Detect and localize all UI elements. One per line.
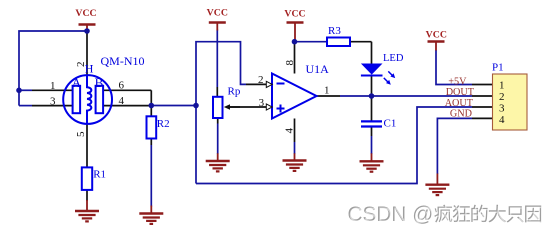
svg-text:VCC: VCC — [426, 30, 447, 41]
svg-text:4: 4 — [284, 128, 296, 134]
svg-text:Rp: Rp — [228, 86, 241, 98]
svg-text:1: 1 — [324, 85, 330, 97]
svg-text:VCC: VCC — [75, 8, 96, 19]
svg-text:+5V: +5V — [448, 77, 467, 88]
svg-text:1: 1 — [50, 80, 56, 92]
svg-text:2: 2 — [499, 91, 505, 103]
svg-text:A: A — [72, 75, 82, 90]
svg-text:B: B — [95, 75, 104, 90]
svg-text:4: 4 — [119, 95, 125, 107]
svg-text:CSDN @: CSDN @ — [349, 204, 435, 227]
svg-text:4: 4 — [499, 114, 505, 126]
svg-text:C1: C1 — [384, 117, 397, 129]
svg-text:8: 8 — [284, 60, 296, 66]
svg-text:6: 6 — [119, 80, 125, 92]
svg-text:5: 5 — [75, 131, 87, 137]
svg-text:VCC: VCC — [284, 9, 305, 20]
svg-text:3: 3 — [50, 95, 56, 107]
svg-text:3: 3 — [259, 97, 265, 109]
svg-text:R1: R1 — [93, 169, 106, 181]
svg-text:3: 3 — [499, 102, 505, 114]
svg-text:2: 2 — [258, 74, 264, 86]
svg-text:R2: R2 — [157, 118, 170, 130]
svg-text:VCC: VCC — [207, 8, 228, 19]
svg-text:1: 1 — [499, 79, 505, 91]
svg-text:GND: GND — [450, 109, 472, 120]
svg-text:DOUT: DOUT — [446, 87, 475, 98]
svg-text:QM-N10: QM-N10 — [101, 54, 145, 68]
svg-text:U1A: U1A — [306, 62, 330, 76]
svg-text:R3: R3 — [328, 25, 341, 37]
svg-text:2: 2 — [75, 62, 87, 68]
svg-text:LED: LED — [383, 53, 404, 64]
svg-text:P1: P1 — [492, 62, 504, 74]
